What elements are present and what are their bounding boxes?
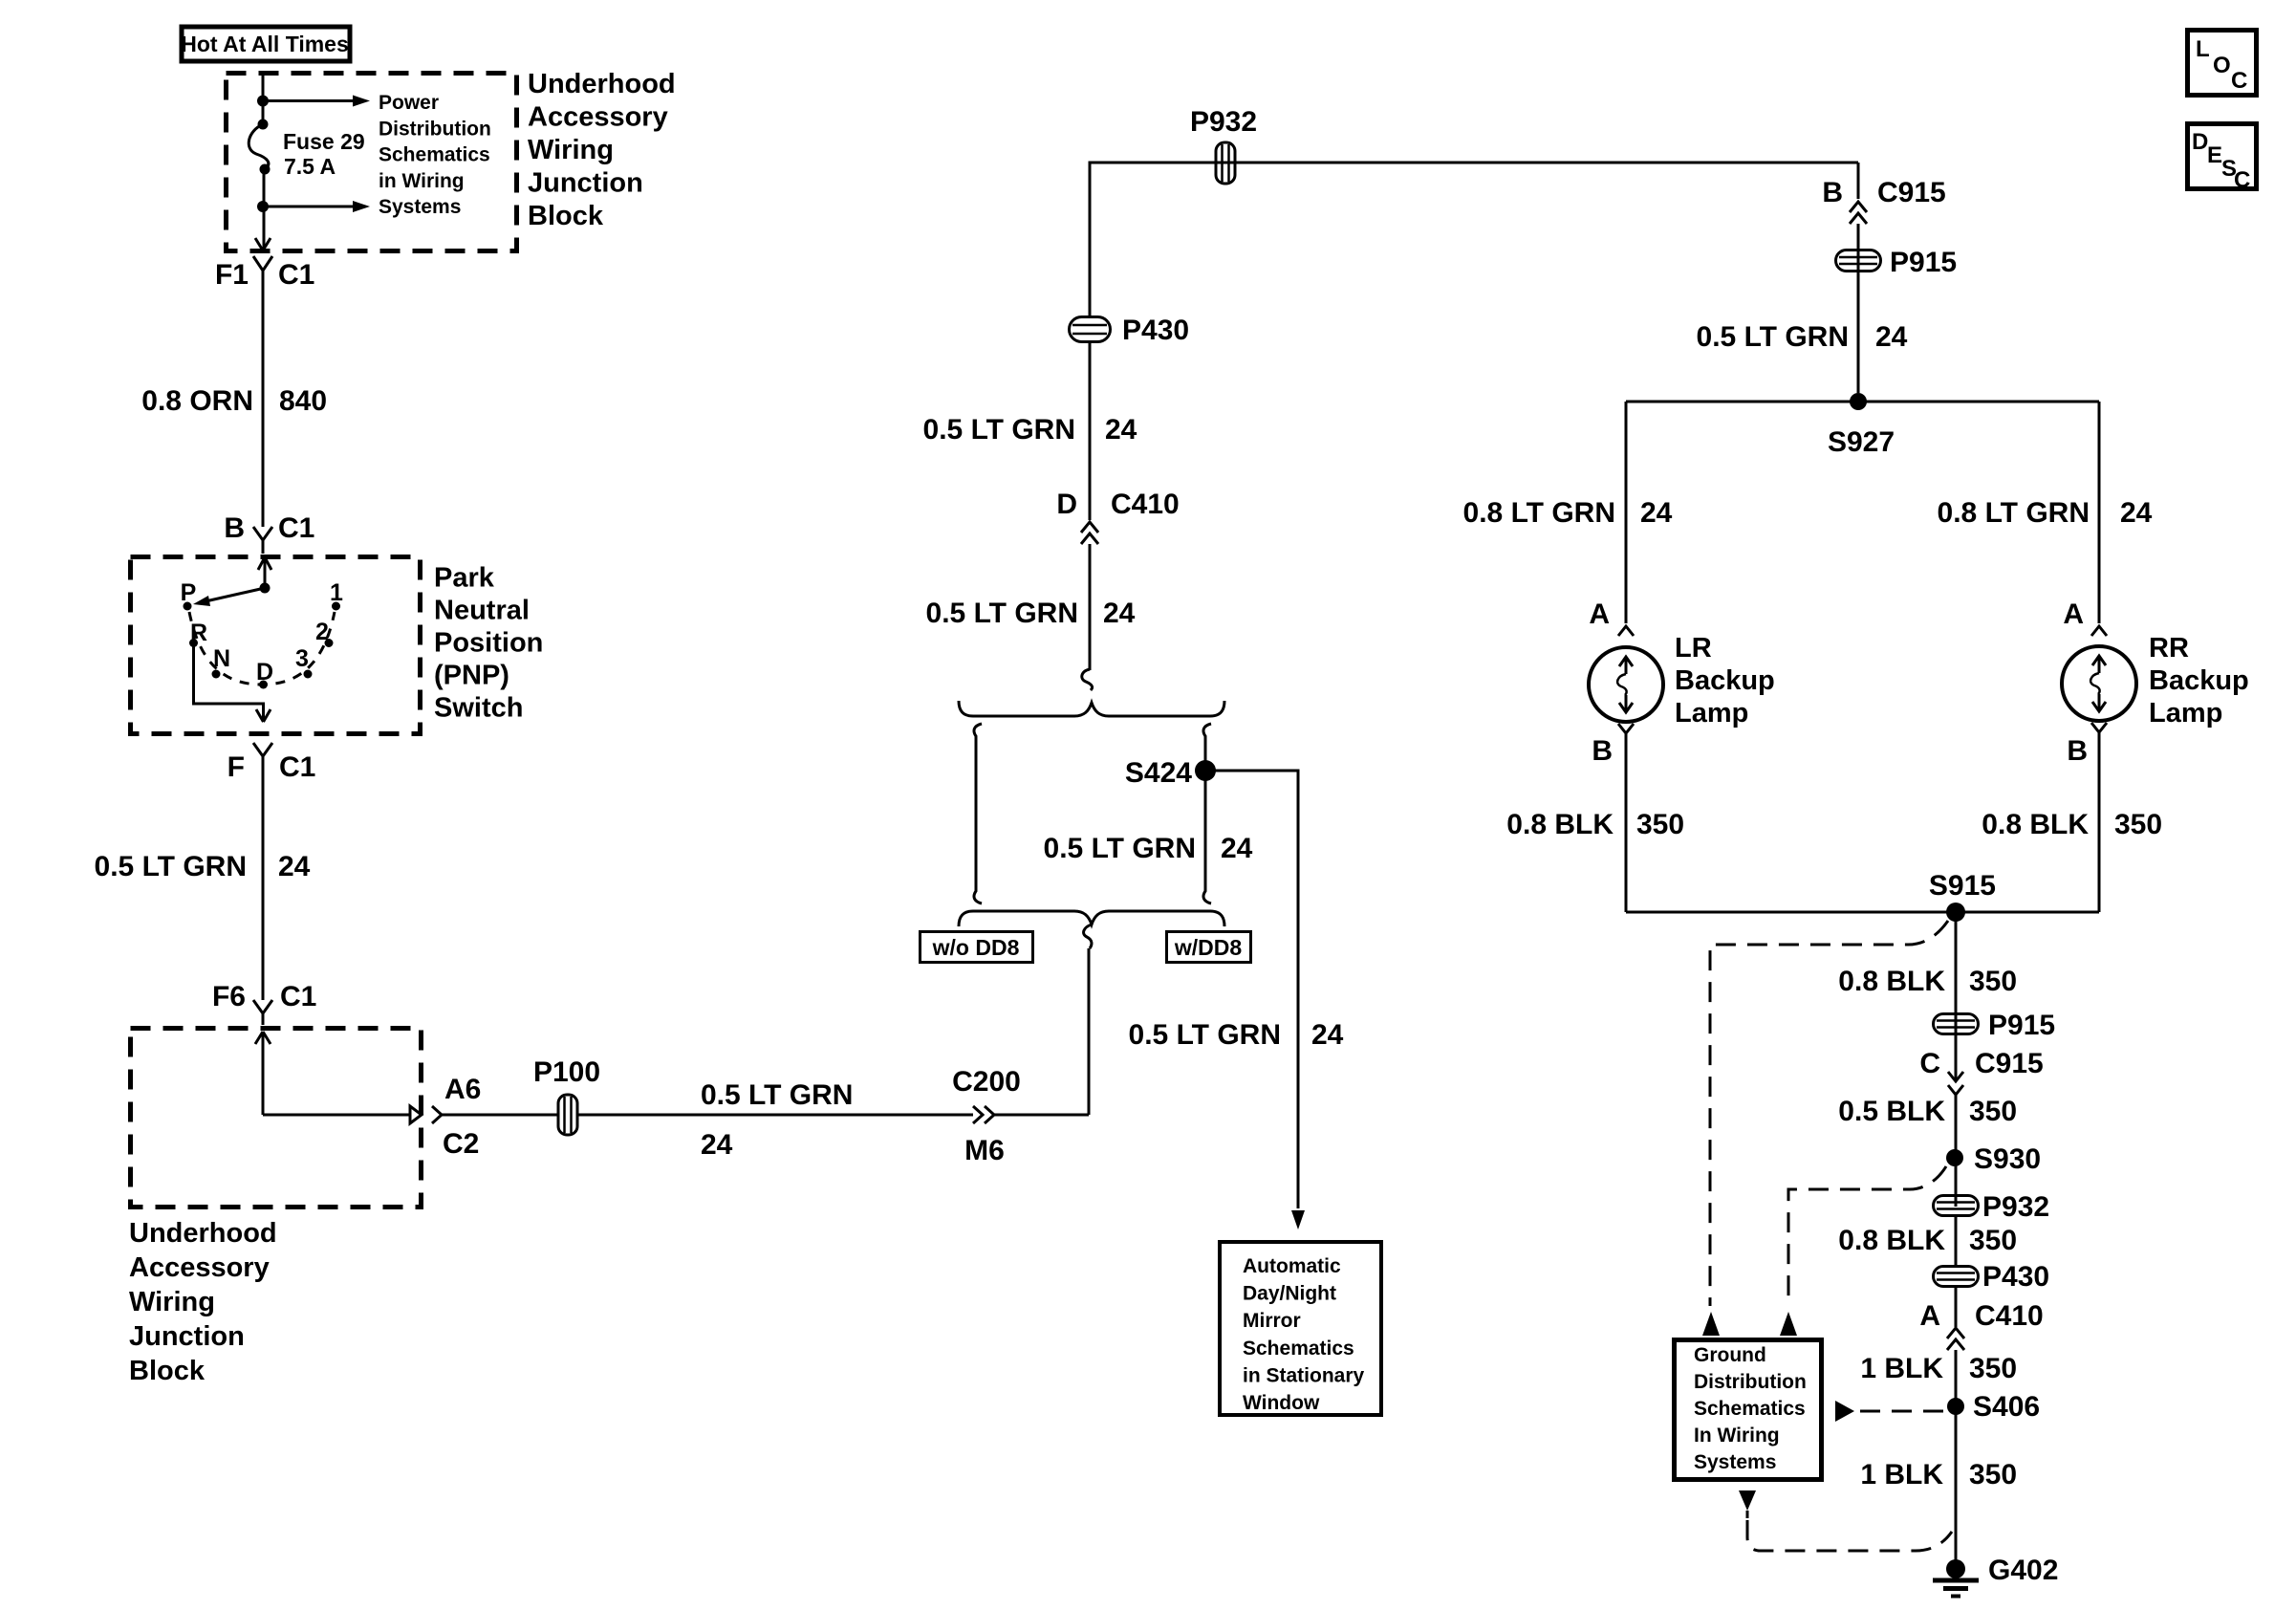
PNP switch arm to P (193, 588, 265, 606)
label 0.5 LT GRN 24 (between alternates) (1044, 833, 1253, 864)
svg-text:RR: RR (2149, 633, 2189, 664)
RR backup lamp (2062, 633, 2249, 729)
svg-text:A6: A6 (444, 1074, 481, 1105)
wire from R contact to PNP exit (194, 643, 271, 723)
svg-text:0.5 LT GRN: 0.5 LT GRN (926, 598, 1078, 629)
svg-text:1 BLK: 1 BLK (1860, 1353, 1943, 1384)
splice S424 (1125, 757, 1216, 789)
svg-text:0.5 LT GRN: 0.5 LT GRN (1129, 1019, 1281, 1051)
dashed link ground box to S406 (1835, 1401, 1944, 1422)
svg-text:0.5 LT GRN: 0.5 LT GRN (1044, 833, 1196, 864)
svg-text:Wiring: Wiring (129, 1287, 215, 1317)
dashed link ground box to G402 (1739, 1490, 1952, 1551)
fuse 29 element (249, 124, 269, 169)
wire C200 to riser (994, 948, 1089, 1115)
svg-text:N: N (213, 645, 230, 672)
svg-text:0.8 BLK: 0.8 BLK (1506, 809, 1614, 840)
svg-text:D: D (256, 659, 273, 685)
wire S927 to LR lamp (1625, 402, 1628, 623)
wire from fuse to box bottom (263, 169, 266, 250)
svg-text:C410: C410 (1975, 1300, 2044, 1332)
svg-text:Schematics: Schematics (379, 144, 490, 166)
connector C C915 down arrow (1919, 1048, 2043, 1095)
svg-text:F6: F6 (212, 981, 246, 1012)
junction node (feed to Power Distribution) (257, 96, 269, 107)
svg-text:Distribution: Distribution (1694, 1371, 1807, 1393)
svg-text:1 BLK: 1 BLK (1860, 1459, 1943, 1490)
svg-text:P932: P932 (1982, 1191, 2049, 1223)
alternates top brace (959, 701, 1224, 716)
label 0.5 LT GRN 24 (left) (95, 851, 311, 882)
svg-text:B: B (1592, 735, 1613, 767)
wire S927 to RR lamp (2098, 402, 2101, 623)
svg-text:C: C (2234, 167, 2250, 193)
label 1 BLK 350 (above S406) (1860, 1353, 2017, 1384)
wire LR lamp to S915 rail (1625, 733, 1628, 912)
wire 0.5 LT GRN 24 (left) (262, 768, 265, 1000)
svg-text:0.8 BLK: 0.8 BLK (1838, 966, 1945, 997)
svg-text:0.8 LT GRN: 0.8 LT GRN (1938, 497, 2090, 529)
svg-text:Power: Power (379, 92, 439, 114)
label Park Neutral Position (PNP) Switch (434, 563, 543, 724)
wire to A6 exit with arrow (263, 1106, 422, 1123)
connector F1 C1 (215, 256, 314, 291)
label 0.5 LT GRN 24 (w/DD8 branch) (1129, 1019, 1344, 1051)
svg-text:R: R (190, 620, 207, 646)
svg-text:24: 24 (1640, 497, 1673, 529)
svg-text:Switch: Switch (434, 693, 523, 724)
svg-text:C2: C2 (443, 1128, 479, 1160)
label box w/DD8 (1167, 932, 1251, 963)
splice S930 (1946, 1143, 2041, 1175)
ground G402 (1933, 1555, 2058, 1597)
svg-text:P100: P100 (533, 1056, 600, 1088)
connector B C915 double chevron (1822, 177, 1945, 224)
connector A C410 double chevron (1919, 1286, 2043, 1350)
connector P915 (top) (1836, 247, 1958, 278)
svg-text:Distribution: Distribution (379, 118, 491, 140)
svg-text:0.8 LT GRN: 0.8 LT GRN (1463, 497, 1615, 529)
svg-text:D: D (2192, 129, 2208, 155)
svg-text:B: B (2067, 735, 2088, 767)
label box w/o DD8 (921, 932, 1033, 963)
svg-text:Window: Window (1243, 1392, 1320, 1414)
label 0.5 LT GRN 24 (below C410) (926, 598, 1136, 629)
svg-text:S424: S424 (1125, 757, 1192, 789)
connector P430 (middle) (1070, 315, 1190, 346)
svg-text:G402: G402 (1988, 1555, 2058, 1586)
svg-text:350: 350 (1969, 966, 2017, 997)
svg-text:0.5 LT GRN: 0.5 LT GRN (95, 851, 247, 882)
wire arrow to Systems (263, 201, 370, 212)
PNP pivot node (260, 583, 271, 594)
wire S915 to C915 down connector (1955, 912, 1958, 1079)
svg-text:Automatic: Automatic (1243, 1255, 1341, 1277)
label "Hot At All Times" box (181, 27, 350, 61)
svg-text:S915: S915 (1929, 870, 1996, 902)
svg-text:L: L (2196, 36, 2210, 62)
arrow into ground box (from S915 path) (1702, 1312, 1720, 1336)
label 0.5 LT GRN 24 (to S927) (1697, 321, 1908, 353)
svg-text:P932: P932 (1190, 106, 1257, 138)
label 0.8 LT GRN 24 (RR) (1938, 497, 2153, 529)
wire S424 to mirror box with arrow (1205, 771, 1305, 1229)
svg-text:In Wiring: In Wiring (1694, 1425, 1780, 1447)
svg-text:Ground: Ground (1694, 1344, 1766, 1366)
wire arrow to Power Distribution Schematics (263, 96, 370, 107)
connector B C1 (224, 512, 314, 554)
svg-text:A: A (1919, 1300, 1940, 1332)
svg-text:M6: M6 (964, 1135, 1005, 1166)
splice S927 (1828, 393, 1895, 458)
label 0.5 LT GRN 24 (above C410) (923, 414, 1137, 446)
svg-text:S406: S406 (1973, 1391, 2040, 1423)
svg-text:350: 350 (1969, 1096, 2017, 1127)
svg-text:P915: P915 (1988, 1010, 2055, 1041)
wire 0.5 LT GRN 24 to C200 (577, 1114, 973, 1117)
svg-text:0.5 LT GRN: 0.5 LT GRN (923, 414, 1075, 446)
svg-text:24: 24 (1221, 833, 1253, 864)
wire start squiggle below brace (1084, 925, 1092, 948)
DESC legend box (2188, 124, 2257, 194)
w/DD8 alternate leg (1203, 724, 1211, 903)
label Fuse 29 7.5 A (283, 129, 365, 179)
svg-text:in Stationary: in Stationary (1243, 1364, 1365, 1386)
wire from box top to fuse (262, 74, 265, 124)
svg-text:Backup: Backup (2149, 665, 2249, 696)
label 1 BLK 350 (below S406) (1860, 1459, 2017, 1490)
PNP position contacts P R N D 3 2 1 (184, 602, 341, 689)
wire inside junction block with up arrow (255, 1032, 271, 1115)
label 0.5 BLK 350 (1838, 1096, 2017, 1127)
svg-text:Junction: Junction (528, 168, 643, 199)
svg-text:350: 350 (1969, 1459, 2017, 1490)
svg-text:Hot At All Times: Hot At All Times (181, 32, 349, 56)
wire C915 to P915 (1857, 224, 1860, 393)
svg-text:S927: S927 (1828, 426, 1895, 458)
svg-text:C1: C1 (278, 512, 314, 544)
svg-text:P430: P430 (1982, 1261, 2049, 1293)
label Underhood Accessory Wiring Junction Block (bottom) (129, 1218, 277, 1386)
svg-text:Systems: Systems (1694, 1451, 1776, 1473)
svg-text:Wiring: Wiring (528, 135, 614, 165)
svg-text:Lamp: Lamp (1675, 698, 1748, 729)
svg-text:24: 24 (1311, 1019, 1344, 1051)
svg-text:C1: C1 (279, 751, 315, 783)
PNP dashed arc (189, 612, 335, 685)
svg-text:Fuse 29: Fuse 29 (283, 129, 365, 154)
connector F6 C1 (212, 981, 316, 1025)
down arrow at box1 exit (255, 238, 271, 250)
wire S927 rail (1626, 401, 2099, 403)
wire arrow into PNP switch (258, 557, 271, 588)
svg-text:Underhood: Underhood (129, 1218, 277, 1249)
svg-text:P: P (181, 579, 197, 606)
pin B chevron (LR) (1592, 724, 1634, 767)
svg-text:24: 24 (701, 1129, 733, 1161)
svg-text:B: B (224, 512, 245, 544)
pin A chevron (LR) (1589, 598, 1634, 636)
label 0.8 BLK 350 (below S915) (1838, 966, 2017, 997)
svg-text:0.8 BLK: 0.8 BLK (1982, 809, 2089, 840)
dashed link S915 to ground box (1710, 921, 1948, 1306)
svg-text:Junction: Junction (129, 1321, 245, 1352)
svg-text:C1: C1 (278, 259, 314, 291)
svg-text:Mirror: Mirror (1243, 1310, 1301, 1332)
wire C410 to S406 (1955, 1350, 1958, 1569)
wire S915 rail (1626, 911, 2099, 914)
svg-text:C: C (2231, 68, 2247, 94)
connector A6 C2 chevron (432, 1074, 481, 1160)
wire C410 to brace (1089, 544, 1092, 670)
wire rail to B C915 (1857, 163, 1860, 199)
w/o DD8 alternate leg (974, 724, 982, 903)
Automatic Day/Night Mirror box (1220, 1242, 1381, 1415)
svg-text:C410: C410 (1111, 489, 1180, 520)
wire P430 to C410 (1089, 342, 1092, 520)
svg-text:(PNP): (PNP) (434, 661, 509, 691)
connector D C410 double chevron (1056, 489, 1179, 544)
svg-text:C915: C915 (1877, 177, 1946, 208)
svg-text:Schematics: Schematics (1694, 1398, 1806, 1420)
svg-text:LR: LR (1675, 633, 1712, 664)
wire 0.8 ORN 840 (262, 283, 265, 527)
splice S915 (1929, 870, 1996, 922)
fuse F29 bottom node (260, 164, 271, 175)
svg-text:C200: C200 (952, 1066, 1021, 1098)
svg-text:24: 24 (1103, 598, 1136, 629)
wire end squiggle above brace (1082, 669, 1093, 690)
svg-text:S930: S930 (1974, 1143, 2041, 1175)
svg-text:Block: Block (129, 1356, 206, 1386)
svg-text:0.5 BLK: 0.5 BLK (1838, 1096, 1945, 1127)
wire C915 to S930 (1955, 1095, 1958, 1207)
connector P932 (lower) (1934, 1191, 2050, 1223)
svg-text:D: D (1056, 489, 1077, 520)
dashed link S930 to ground box (1788, 1166, 1946, 1306)
Ground Distribution Schematics box (1675, 1340, 1822, 1480)
svg-text:Accessory: Accessory (129, 1252, 270, 1283)
underhood accessory wiring junction block (bottom) dashed box (131, 1029, 422, 1207)
svg-text:C: C (1919, 1048, 1940, 1079)
svg-text:0.5 LT GRN: 0.5 LT GRN (701, 1079, 853, 1111)
label 0.8 ORN 840 (141, 385, 327, 417)
underhood accessory wiring junction block (top) dashed box (227, 74, 517, 251)
LOC legend box (2188, 31, 2257, 96)
wire top rail P932 run (1090, 163, 1858, 316)
svg-text:O: O (2213, 53, 2231, 78)
wire RR lamp to S915 rail (2098, 732, 2101, 912)
connector P932 (top rail) (1190, 106, 1257, 184)
pin B chevron (RR) (2067, 723, 2107, 767)
svg-text:A: A (1589, 598, 1610, 630)
svg-text:Lamp: Lamp (2149, 698, 2222, 729)
svg-text:Block: Block (528, 201, 604, 231)
svg-text:0.8 BLK: 0.8 BLK (1838, 1225, 1945, 1256)
svg-text:Day/Night: Day/Night (1243, 1283, 1336, 1305)
svg-text:P915: P915 (1890, 247, 1957, 278)
svg-text:3: 3 (295, 645, 309, 672)
wire A6 to P100 (442, 1114, 558, 1117)
label 0.8 BLK 350 (RR) (1982, 809, 2162, 840)
svg-text:C1: C1 (280, 981, 316, 1012)
connector C200 M6 double chevron (952, 1066, 1021, 1166)
svg-text:0.8 ORN: 0.8 ORN (141, 385, 253, 417)
svg-text:C915: C915 (1975, 1048, 2044, 1079)
label 0.8 BLK 350 (P932-P430) (1838, 1225, 2017, 1256)
svg-text:840: 840 (279, 385, 327, 417)
svg-text:350: 350 (1969, 1353, 2017, 1384)
svg-text:24: 24 (278, 851, 311, 882)
LR backup lamp (1589, 633, 1775, 729)
svg-text:F: F (227, 751, 245, 783)
svg-text:2: 2 (315, 619, 329, 645)
svg-text:F1: F1 (215, 259, 249, 291)
PNP switch dashed box (131, 557, 421, 734)
svg-text:Underhood: Underhood (528, 69, 676, 99)
junction node (feed to Systems) (257, 201, 269, 212)
label Power Distribution Schematics in Wiring Systems (379, 92, 491, 218)
svg-text:Systems: Systems (379, 196, 461, 218)
label 0.8 LT GRN 24 (LR) (1463, 497, 1673, 529)
svg-text:350: 350 (2114, 809, 2162, 840)
svg-text:E: E (2207, 142, 2222, 168)
svg-text:Neutral: Neutral (434, 596, 530, 626)
label 0.5 LT GRN 24 (horizontal run) (701, 1079, 853, 1161)
svg-text:Accessory: Accessory (528, 102, 668, 133)
splice S406 (1947, 1391, 2040, 1423)
label Underhood Accessory Wiring Junction Block (top) (528, 69, 676, 231)
connector P430 (lower) (1934, 1261, 2050, 1293)
svg-text:P430: P430 (1122, 315, 1189, 346)
label 0.8 BLK 350 (LR) (1506, 809, 1684, 840)
connector P100 (533, 1056, 600, 1135)
PNP position labels (181, 579, 343, 685)
svg-text:Schematics: Schematics (1243, 1338, 1354, 1360)
connector F C1 (227, 743, 316, 783)
pin A chevron (RR) (2063, 598, 2107, 636)
svg-text:24: 24 (2120, 497, 2153, 529)
svg-text:350: 350 (1636, 809, 1684, 840)
svg-text:in Wiring: in Wiring (379, 170, 465, 192)
connector P915 (lower) (1934, 1010, 2056, 1041)
wire P932 to P430 (1955, 1216, 1958, 1267)
svg-text:A: A (2063, 598, 2084, 630)
arrow into ground box (from S930 path) (1780, 1312, 1797, 1336)
svg-text:Backup: Backup (1675, 665, 1775, 696)
alternates bottom brace (959, 911, 1224, 926)
svg-text:350: 350 (1969, 1225, 2017, 1256)
svg-text:Position: Position (434, 628, 543, 659)
svg-text:w/o DD8: w/o DD8 (932, 935, 1020, 960)
svg-text:0.5 LT GRN: 0.5 LT GRN (1697, 321, 1849, 353)
svg-text:B: B (1822, 177, 1843, 208)
svg-text:1: 1 (330, 579, 343, 606)
svg-text:w/DD8: w/DD8 (1174, 935, 1243, 960)
fuse F29 top node (258, 120, 269, 130)
svg-text:Park: Park (434, 563, 495, 594)
svg-text:7.5 A: 7.5 A (284, 154, 336, 179)
svg-text:24: 24 (1875, 321, 1908, 353)
svg-text:24: 24 (1105, 414, 1137, 446)
